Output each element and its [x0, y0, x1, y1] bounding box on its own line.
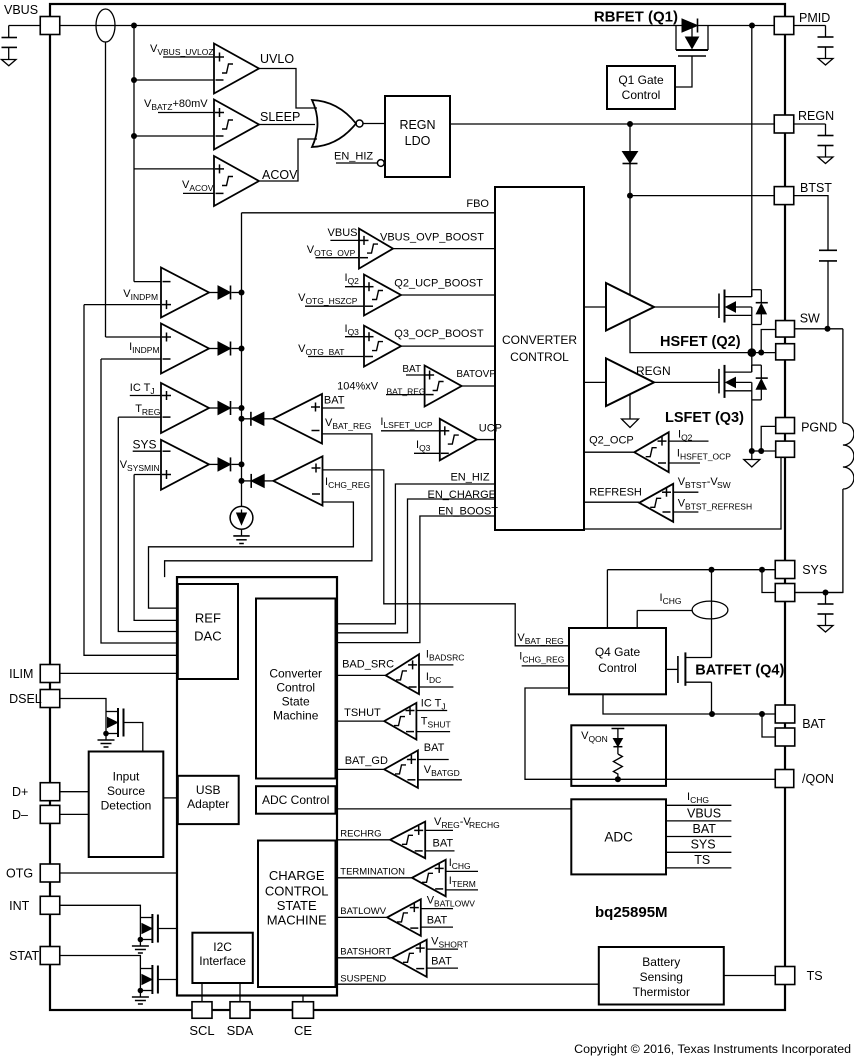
svg-text:Q4 Gate: Q4 Gate [595, 645, 641, 659]
svg-text:ADC: ADC [604, 830, 633, 845]
svg-text:REGN: REGN [798, 109, 834, 123]
svg-text:BAT_GD: BAT_GD [345, 755, 388, 767]
svg-text:CHARGE: CHARGE [269, 868, 325, 883]
svg-text:Q2_UCP_BOOST: Q2_UCP_BOOST [394, 278, 483, 290]
svg-text:SUSPEND: SUSPEND [340, 974, 386, 985]
svg-text:FBO: FBO [466, 198, 489, 210]
svg-text:ACOV: ACOV [262, 168, 298, 182]
svg-text:TERMINATION: TERMINATION [340, 867, 405, 878]
svg-text:Control: Control [276, 681, 315, 695]
svg-text:STATE: STATE [277, 898, 317, 913]
svg-text:Q3_OCP_BOOST: Q3_OCP_BOOST [394, 328, 484, 340]
svg-text:BAT: BAT [402, 364, 421, 375]
svg-text:EN_HIZ: EN_HIZ [334, 151, 373, 163]
svg-text:BATSHORT: BATSHORT [340, 947, 391, 958]
svg-text:MACHINE: MACHINE [267, 913, 327, 928]
svg-text:Machine: Machine [273, 709, 319, 723]
svg-text:LSFET (Q3): LSFET (Q3) [665, 410, 744, 426]
svg-text:REF: REF [195, 611, 221, 626]
svg-text:ILIM: ILIM [9, 667, 33, 681]
svg-text:BAD_SRC: BAD_SRC [342, 659, 394, 671]
svg-text:BAT: BAT [431, 956, 452, 968]
svg-text:CONVERTER: CONVERTER [502, 333, 577, 347]
svg-text:PGND: PGND [801, 421, 837, 435]
svg-text:LDO: LDO [405, 134, 431, 148]
svg-text:Copyright © 2016, Texas Instru: Copyright © 2016, Texas Instruments Inco… [574, 1042, 851, 1056]
svg-text:REGN: REGN [399, 118, 435, 132]
svg-text:SYS: SYS [132, 438, 156, 452]
svg-text:BAT: BAT [693, 822, 717, 836]
svg-text:Q2_OCP: Q2_OCP [589, 435, 634, 447]
svg-text:BTST: BTST [800, 181, 832, 195]
svg-text:SCL: SCL [189, 1023, 214, 1038]
svg-text:/QON: /QON [802, 772, 834, 786]
svg-text:REGN: REGN [636, 364, 671, 378]
svg-text:CE: CE [294, 1023, 312, 1038]
svg-text:UCP: UCP [479, 423, 502, 435]
svg-text:SW: SW [717, 480, 731, 490]
svg-text:BAT: BAT [424, 742, 445, 754]
svg-text:TSHUT: TSHUT [344, 707, 381, 719]
svg-text:TS: TS [694, 853, 710, 867]
svg-text:RBFET (Q1): RBFET (Q1) [594, 9, 678, 26]
svg-text:INT: INT [9, 899, 30, 913]
svg-text:UVLO: UVLO [260, 52, 294, 66]
svg-text:CONTROL: CONTROL [265, 884, 329, 899]
svg-text:HSFET (Q2): HSFET (Q2) [660, 334, 741, 350]
svg-text:Detection: Detection [101, 799, 152, 813]
svg-text:BAT: BAT [433, 838, 454, 850]
svg-text:SYS: SYS [802, 563, 827, 577]
svg-text:BAT: BAT [802, 717, 826, 731]
svg-text:BATFET (Q4): BATFET (Q4) [695, 663, 784, 679]
svg-text:BAT: BAT [427, 915, 448, 927]
svg-text:SYS: SYS [691, 838, 716, 852]
svg-text:REFRESH: REFRESH [589, 487, 642, 499]
svg-text:Interface: Interface [199, 954, 246, 968]
svg-text:Thermistor: Thermistor [633, 985, 690, 999]
svg-text:BAT: BAT [324, 395, 345, 407]
svg-text:VBUS: VBUS [4, 3, 38, 17]
svg-text:DAC: DAC [194, 629, 221, 644]
svg-text:Converter: Converter [269, 667, 322, 681]
svg-text:Battery: Battery [642, 955, 680, 969]
svg-text:VBUS: VBUS [687, 807, 721, 821]
svg-text:ADC Control: ADC Control [262, 793, 329, 807]
svg-text:OTG: OTG [6, 867, 33, 881]
svg-text:SW: SW [800, 312, 820, 326]
svg-text:BATLOWV: BATLOWV [340, 906, 386, 917]
svg-text:VBUS: VBUS [328, 227, 358, 239]
svg-text:EN_HIZ: EN_HIZ [450, 472, 489, 484]
svg-text:D–: D– [12, 808, 28, 822]
svg-text:Input: Input [113, 770, 140, 784]
svg-text:State: State [282, 695, 310, 709]
svg-text:PMID: PMID [799, 11, 830, 25]
svg-text:SDA: SDA [227, 1023, 254, 1038]
svg-text:Control: Control [598, 661, 637, 675]
svg-text:STAT: STAT [9, 949, 39, 963]
svg-text:USB: USB [196, 783, 221, 797]
svg-text:BATOVP: BATOVP [456, 369, 496, 380]
svg-text:D+: D+ [12, 785, 28, 799]
svg-text:I2C: I2C [213, 940, 232, 954]
svg-text:Q1 Gate: Q1 Gate [618, 73, 664, 87]
svg-text:DSEL: DSEL [9, 692, 42, 706]
svg-text:CONTROL: CONTROL [510, 350, 569, 364]
svg-text:TS: TS [807, 969, 823, 983]
svg-text:Adapter: Adapter [187, 797, 229, 811]
svg-text:RECHRG: RECHRG [340, 829, 381, 840]
svg-text:SLEEP: SLEEP [260, 110, 300, 124]
svg-text:Source: Source [107, 784, 145, 798]
svg-text:VBUS_OVP_BOOST: VBUS_OVP_BOOST [380, 232, 484, 244]
svg-text:RECHG: RECHG [469, 820, 500, 830]
svg-text:Sensing: Sensing [640, 970, 683, 984]
svg-text:bq25895M: bq25895M [595, 904, 668, 921]
svg-text:104%xV: 104%xV [337, 381, 379, 393]
svg-text:Control: Control [622, 88, 661, 102]
